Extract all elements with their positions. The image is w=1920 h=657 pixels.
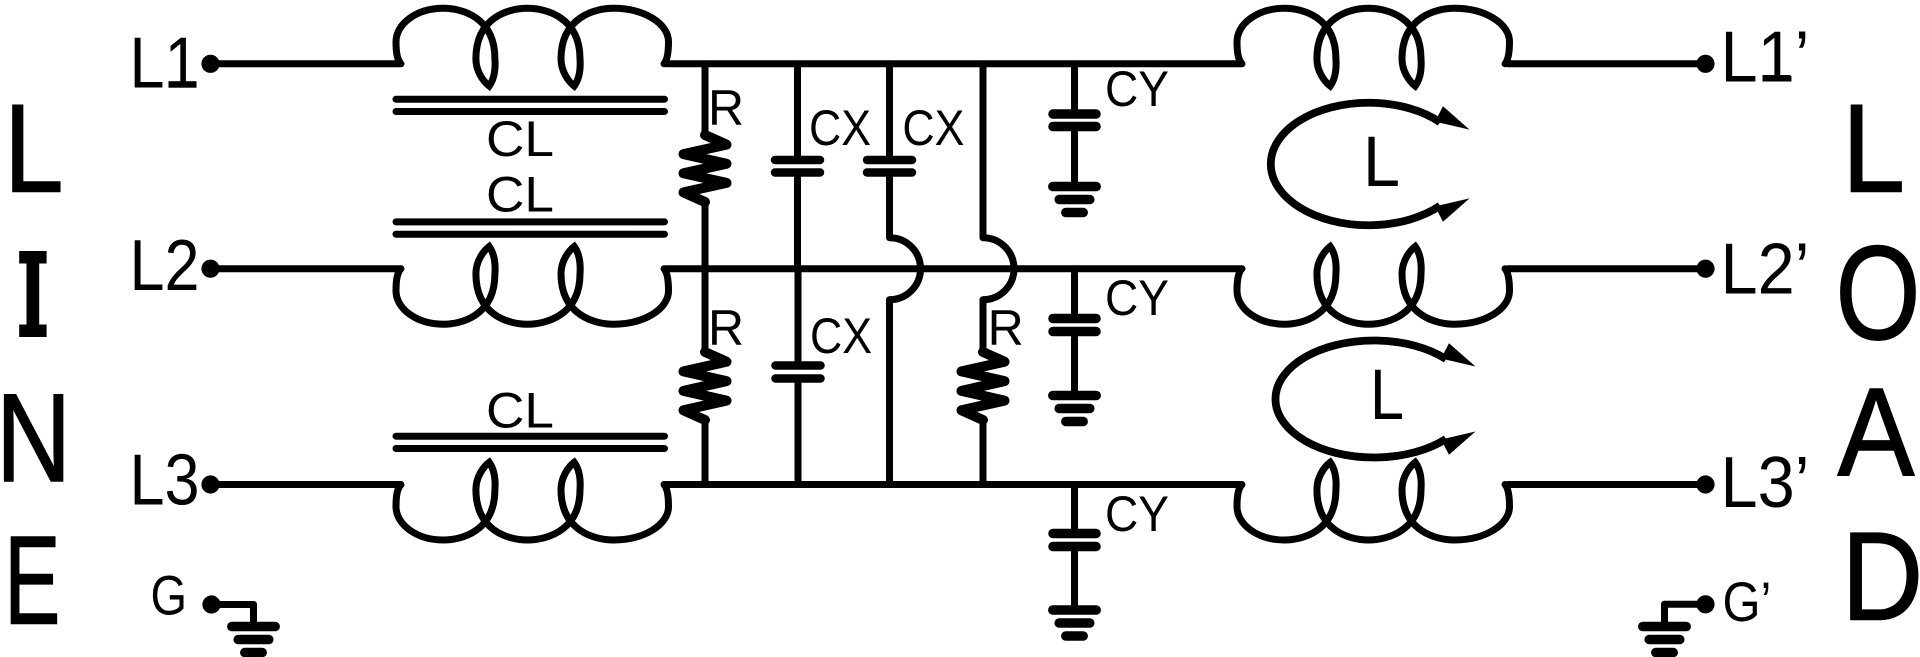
svg-text:N: N [0, 367, 71, 508]
svg-text:L: L [1363, 123, 1400, 202]
svg-text:CY: CY [1105, 61, 1169, 117]
svg-text:G’: G’ [1723, 570, 1772, 633]
svg-text:L3: L3 [130, 440, 200, 521]
svg-text:CX: CX [809, 100, 871, 156]
svg-text:E: E [4, 510, 60, 651]
svg-text:L: L [4, 77, 64, 218]
svg-text:O: O [1836, 219, 1920, 368]
svg-text:L: L [1842, 77, 1905, 218]
svg-text:CL: CL [486, 111, 554, 167]
svg-text:CX: CX [810, 308, 872, 364]
svg-text:D: D [1842, 506, 1920, 647]
svg-text:R: R [708, 80, 744, 136]
svg-text:CY: CY [1105, 270, 1169, 326]
svg-text:L1’: L1’ [1721, 17, 1810, 98]
svg-text:R: R [708, 300, 744, 356]
svg-text:R: R [988, 300, 1024, 356]
svg-text:CY: CY [1105, 486, 1169, 542]
svg-text:A: A [1838, 361, 1915, 502]
svg-text:L2’: L2’ [1721, 229, 1810, 310]
svg-text:L1: L1 [130, 23, 200, 104]
svg-text:G: G [151, 564, 188, 627]
svg-text:CL: CL [486, 166, 554, 222]
svg-text:L2: L2 [130, 225, 200, 306]
svg-text:L: L [1370, 356, 1404, 435]
svg-text:CX: CX [902, 100, 964, 156]
svg-text:L3’: L3’ [1721, 442, 1810, 523]
svg-text:CL: CL [486, 383, 554, 439]
